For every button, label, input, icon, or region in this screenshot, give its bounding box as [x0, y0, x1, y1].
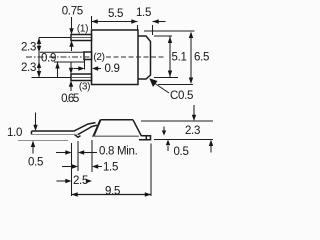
lead cap	[31, 131, 33, 135]
svg-text:0.9: 0.9	[104, 63, 119, 75]
arrow 1.5 left	[153, 19, 159, 23]
pin interior lines	[72, 38, 91, 78]
svg-text:1.5: 1.5	[136, 7, 151, 19]
arrow 9.5 left	[72, 192, 78, 196]
0.75 lower shaft	[71, 46, 73, 51]
arrow stagger up	[55, 62, 59, 69]
arrow 1.0 down	[33, 125, 37, 131]
body front slant	[94, 120, 101, 136]
0.75 shaft	[71, 17, 73, 29]
pin 3 center line	[72, 77, 91, 79]
arrow 6.5 up	[189, 32, 193, 39]
tab slab	[139, 136, 151, 140]
arrow 2.3 down	[37, 71, 41, 78]
arrowheads top view	[37, 19, 193, 87]
arrow 0.75 up	[69, 41, 73, 47]
arrow 0.65 down	[69, 68, 73, 74]
arrow 0.9 left	[92, 66, 98, 70]
0.9 stub hook	[84, 60, 86, 70]
5.5 dim	[92, 21, 138, 23]
arrow 0.5 tab up	[166, 140, 170, 146]
svg-text:6.5: 6.5	[194, 52, 209, 64]
seating line	[18, 140, 68, 142]
center line left	[26, 56, 91, 58]
svg-text:1.5: 1.5	[103, 162, 118, 174]
1.5b shafts	[62, 166, 72, 168]
svg-text:5.1: 5.1	[172, 52, 187, 64]
C0.5 leader	[152, 82, 169, 94]
dimension thin lines	[32, 16, 195, 93]
2.3 dim line vertical	[38, 38, 40, 78]
2.5 shafts	[57, 180, 66, 182]
arrow 1.5b left	[92, 164, 98, 168]
stagger arrow shaft	[57, 62, 59, 78]
arrow 2.3 side up	[209, 140, 213, 147]
0.5R down shaft	[163, 127, 165, 132]
1.0 shaft	[35, 113, 37, 126]
svg-text:2.3: 2.3	[21, 42, 36, 54]
arrow 1.5b right	[72, 164, 78, 168]
5.1 bottom extension	[154, 77, 178, 79]
pin 2 stub	[84, 52, 92, 60]
arrow 2.5 left head	[65, 179, 71, 183]
pin 3	[71, 74, 92, 81]
0.5 left shaft	[32, 147, 34, 154]
pin 1	[71, 35, 92, 41]
arrow 0.8min right	[65, 150, 71, 154]
arrow 5.5 right	[131, 19, 137, 23]
line A : body top ext	[141, 120, 213, 122]
6.5 top extension	[144, 30, 195, 32]
5.1 top extension	[154, 35, 172, 37]
center line	[26, 56, 166, 58]
2.3 down shaft	[193, 105, 195, 115]
arrow 0.5 tab down	[162, 131, 166, 136]
body bottom extension	[158, 84, 193, 86]
arrow 0.65 up	[69, 81, 73, 87]
side view arrowheads	[31, 115, 213, 197]
arrow 2.3 down to pin2	[37, 46, 41, 52]
arrow C0.5 leader head	[149, 78, 157, 87]
1.5 dim tail	[153, 21, 166, 23]
svg-text:0.9: 0.9	[41, 52, 56, 64]
svg-text:C0.5: C0.5	[170, 90, 193, 102]
center line right	[106, 56, 166, 58]
tab top view	[138, 36, 151, 79]
svg-text:1.0: 1.0	[7, 127, 22, 139]
arrow 0.9 right	[78, 66, 84, 70]
body outline top view	[92, 30, 139, 85]
arrow 5.5 left	[92, 19, 98, 23]
9.5 dim line	[72, 194, 152, 196]
svg-text:2.3: 2.3	[21, 62, 36, 74]
arrow 2.3 up	[37, 38, 41, 45]
side view dimension lines	[33, 105, 213, 196]
arrow 2.3 side down	[192, 115, 196, 121]
svg-text:(3): (3)	[79, 82, 90, 93]
svg-text:0.8 Min.: 0.8 Min.	[99, 146, 138, 158]
arrow 0.9 up	[37, 62, 41, 69]
0.5R up shaft	[167, 146, 169, 151]
lead top	[32, 130, 75, 132]
svg-text:2.3: 2.3	[185, 125, 200, 137]
arrow 9.5 right	[145, 192, 151, 196]
bend outer corner	[74, 134, 81, 137]
pin 1 center line	[72, 37, 91, 39]
ext vertical 3	[91, 140, 93, 172]
svg-text:2.5: 2.5	[73, 175, 88, 187]
body top	[101, 119, 134, 121]
0.65 lower shaft	[70, 87, 72, 92]
0.8min shafts	[56, 152, 66, 154]
body bottom	[92, 135, 139, 137]
svg-text:(1): (1)	[77, 24, 88, 35]
svg-text:0.65: 0.65	[61, 93, 79, 105]
2.3 up shaft	[210, 146, 212, 153]
body right slant	[133, 120, 142, 136]
bend bottom diagonal	[78, 125, 97, 134]
svg-text:0.5: 0.5	[28, 156, 43, 168]
svg-text:0.5: 0.5	[173, 146, 188, 158]
bend top diagonal	[74, 123, 96, 131]
0.9 stub arrows shafts	[74, 68, 79, 70]
lead bottom	[32, 134, 79, 136]
5.1 dim line	[169, 37, 171, 78]
svg-text:5.5: 5.5	[108, 8, 123, 20]
arrow 0.8min left	[78, 150, 84, 154]
line B : tab bottom ext	[154, 139, 213, 141]
arrow 5.1 up	[168, 37, 172, 44]
ext vertical 1	[71, 143, 73, 196]
arrow 2.5 right head	[86, 179, 92, 183]
pin2 width extensions	[40, 51, 84, 53]
svg-text:0.75: 0.75	[62, 6, 83, 18]
arrow 5.1 down	[168, 71, 172, 78]
ext vertical 4	[150, 144, 152, 197]
0.65 upper shaft	[70, 62, 72, 68]
arrow 0.5 up seating	[31, 141, 35, 148]
6.5 dim line	[190, 34, 192, 82]
ext vertical 2	[77, 141, 79, 171]
svg-text:9.5: 9.5	[105, 186, 120, 198]
svg-text:(2): (2)	[93, 52, 104, 63]
arrow 6.5 down	[189, 78, 193, 85]
pin1 mid extension	[39, 37, 71, 39]
arrow 0.75 down	[69, 28, 73, 34]
pin3 mid extension	[32, 77, 72, 79]
